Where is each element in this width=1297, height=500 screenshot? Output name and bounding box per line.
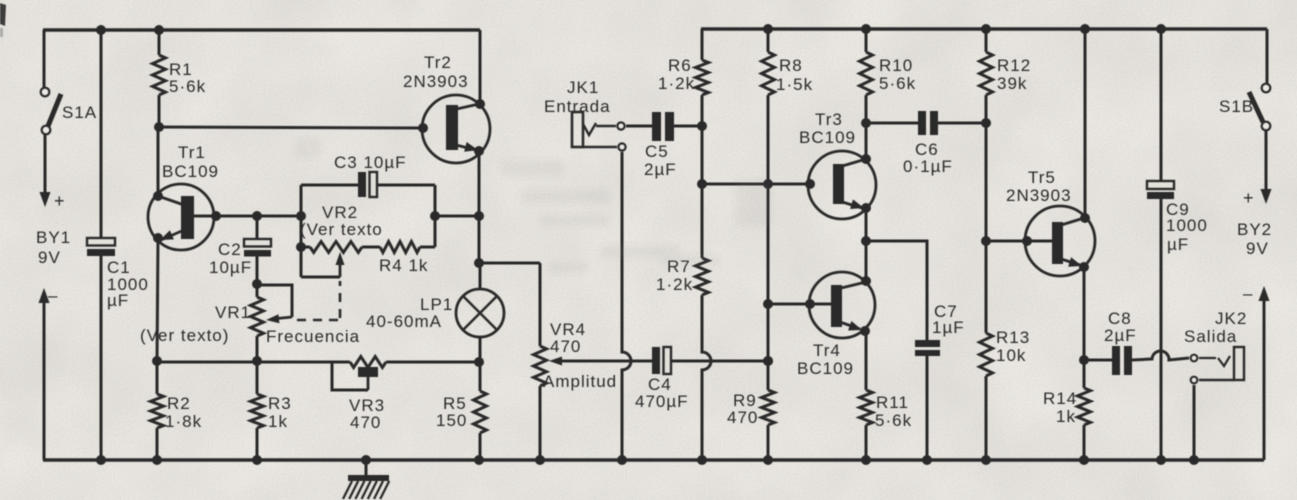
junction ground rail xyxy=(361,455,371,465)
wire R12 to Tr5 base node xyxy=(985,123,988,241)
svg-text:+: + xyxy=(1243,188,1254,208)
wire R2 bottom xyxy=(156,428,159,460)
wire VR2 loop right vertical xyxy=(434,185,437,247)
junction Tr4 base node xyxy=(763,299,773,309)
junction VR2 loop left xyxy=(296,211,306,221)
battery BY1 negative arrow xyxy=(39,288,50,460)
svg-text:1·2k: 1·2k xyxy=(656,275,693,294)
junction Tr2 base xyxy=(418,123,428,133)
potentiometer VR3 wiper xyxy=(332,362,378,390)
wire C1 bottom xyxy=(100,256,103,460)
resistor R4 xyxy=(380,242,420,253)
svg-text:JK1: JK1 xyxy=(567,78,599,97)
svg-text:R2: R2 xyxy=(167,394,191,413)
transistor Tr3 xyxy=(808,151,876,219)
svg-text:150: 150 xyxy=(436,411,467,430)
wire R13 top xyxy=(985,241,988,333)
wire Tr2 collector xyxy=(479,30,482,104)
battery BY2 positive arrow xyxy=(1261,131,1272,204)
junction C9 top rail xyxy=(1156,24,1166,34)
capacitor C1 xyxy=(87,238,115,256)
wire JK1 tip to C5 xyxy=(626,125,652,128)
wire top rail left section xyxy=(43,28,480,32)
wire R14 bottom xyxy=(1083,425,1086,460)
wire VR2 loop to Tr2 emitter line xyxy=(435,215,479,218)
svg-text:470: 470 xyxy=(550,337,581,356)
svg-text:BC109: BC109 xyxy=(162,162,219,181)
resistor R6 xyxy=(696,60,709,95)
transistor Tr2 xyxy=(422,95,490,163)
wire VR1 bottom xyxy=(256,336,259,361)
capacitor C7 xyxy=(915,340,940,356)
junction R9 C4 node covered xyxy=(763,356,773,366)
svg-text:1k: 1k xyxy=(268,412,288,431)
svg-text:R14: R14 xyxy=(1043,389,1077,408)
junction VR2 loop right xyxy=(430,211,440,221)
wire R9 bottom xyxy=(767,425,770,460)
junction Tr5 emitter xyxy=(1079,262,1089,272)
junction JK1 sleeve rail xyxy=(617,455,627,465)
svg-text:VR1: VR1 xyxy=(215,303,251,322)
wire C8 to JK2 with hop xyxy=(1132,351,1189,360)
scan artifact edge blob xyxy=(0,3,6,37)
junction R3 bottom rail xyxy=(252,455,262,465)
resistor R7 xyxy=(696,258,709,295)
junction Tr2 emitter loop node xyxy=(474,211,484,221)
resistor R12 xyxy=(980,52,993,95)
junction C8 tap xyxy=(1079,355,1089,365)
wire Tr4 base xyxy=(768,303,832,306)
wire C9 top xyxy=(1160,29,1163,182)
svg-text:R12: R12 xyxy=(997,56,1031,75)
junction R11 bottom rail xyxy=(861,455,871,465)
ground xyxy=(343,460,389,499)
junction Tr5 collector rail xyxy=(1080,24,1090,34)
svg-text:Frecuencia: Frecuencia xyxy=(266,327,360,346)
svg-text:+: + xyxy=(54,191,65,211)
wire R5 bottom xyxy=(479,433,482,460)
svg-text:1000: 1000 xyxy=(1166,216,1208,235)
svg-text:–: – xyxy=(48,286,58,305)
svg-text:470µF: 470µF xyxy=(635,392,689,411)
junction R8 base node xyxy=(763,179,773,189)
lamp LP1 xyxy=(456,289,504,337)
wire VR2 to R4 xyxy=(362,246,380,249)
potentiometer VR1 xyxy=(251,297,264,336)
wire JK2 sleeve down xyxy=(1193,385,1196,460)
junction R10 C6 node xyxy=(861,118,871,128)
svg-text:C3 10µF: C3 10µF xyxy=(334,153,407,172)
dashed gang link VR1 to VR2 xyxy=(297,281,340,320)
resistor R5 xyxy=(474,391,487,433)
junction C7 tap xyxy=(861,236,871,246)
svg-text:5·6k: 5·6k xyxy=(169,77,206,96)
svg-text:39k: 39k xyxy=(997,74,1027,93)
wire R9 top xyxy=(767,304,770,390)
junction R7 bottom rail xyxy=(697,455,707,465)
svg-text:Tr2: Tr2 xyxy=(424,53,452,72)
svg-text:BY2: BY2 xyxy=(1237,220,1272,239)
wire VR4 top xyxy=(539,263,542,346)
wire R8 top xyxy=(767,29,770,52)
wire C1 top xyxy=(100,30,103,238)
junction C1 top rail xyxy=(96,25,106,35)
svg-text:–: – xyxy=(1243,284,1253,303)
wire R12 bottom xyxy=(985,95,988,123)
junction Tr1 base node xyxy=(211,211,221,221)
wire Tr2 emitter to VR4 xyxy=(479,262,540,265)
junction Tr4 base circle xyxy=(805,299,815,309)
scan artifact ghost print-through xyxy=(295,138,771,273)
resistor R10 xyxy=(860,52,873,95)
svg-text:2N3903: 2N3903 xyxy=(1006,186,1072,205)
svg-text:R13: R13 xyxy=(996,328,1030,347)
svg-text:R6: R6 xyxy=(668,56,692,75)
wire VR2 loop left vertical xyxy=(300,185,303,277)
wire R13 bottom xyxy=(985,376,988,460)
svg-text:C2: C2 xyxy=(218,240,242,259)
junction C4 R9 node xyxy=(763,356,773,366)
svg-text:10µF: 10µF xyxy=(209,258,252,277)
svg-text:Tr1: Tr1 xyxy=(178,143,206,162)
wire R1 top xyxy=(158,30,161,55)
junction Tr2 collector xyxy=(475,99,485,109)
junction R12 top rail xyxy=(981,24,991,34)
resistor R1 xyxy=(153,55,166,95)
svg-text:(Ver texto: (Ver texto xyxy=(300,220,383,239)
wire S1B top xyxy=(1266,29,1269,84)
wire Tr3 collector up xyxy=(865,123,868,159)
svg-text:R8: R8 xyxy=(779,56,803,75)
junction VR2 zigzag left xyxy=(296,242,306,252)
junction LP1 top node xyxy=(474,258,484,268)
svg-text:Tr3: Tr3 xyxy=(815,110,843,129)
wire C5 to R6 xyxy=(674,125,702,128)
wire Tr3 emitter down xyxy=(865,208,868,281)
junction R5 bottom rail xyxy=(474,455,484,465)
wire Tr2 emitter down xyxy=(478,151,481,263)
resistor R9 xyxy=(762,390,775,425)
svg-text:R11: R11 xyxy=(876,393,909,412)
wire C8 left xyxy=(1084,359,1112,362)
junction R10 top rail xyxy=(861,24,871,34)
junction R3 top xyxy=(252,356,262,366)
wire emitter bus right xyxy=(386,361,480,364)
potentiometer VR4 wiper arrow xyxy=(549,357,652,366)
wire Tr3 base xyxy=(702,183,810,186)
wire C7 bottom xyxy=(926,356,929,460)
svg-text:9V: 9V xyxy=(38,248,61,267)
junction Tr1 emitter xyxy=(153,233,163,243)
wire R2 top xyxy=(156,361,159,394)
wire R4 right stub xyxy=(420,246,435,249)
wire R3 top xyxy=(256,361,259,394)
svg-text:0·1µF: 0·1µF xyxy=(903,157,953,176)
wire C9 bottom xyxy=(1160,199,1163,460)
junction Tr1 collector xyxy=(153,191,163,201)
svg-text:µF: µF xyxy=(107,291,129,310)
svg-text:2µF: 2µF xyxy=(644,160,677,179)
switch S1B xyxy=(1249,84,1270,130)
capacitor C4 xyxy=(652,347,671,374)
wire R6 bottom xyxy=(701,95,704,126)
capacitor C8 xyxy=(1112,346,1132,375)
svg-text:(Ver texto): (Ver texto) xyxy=(140,326,229,345)
wire C2 bottom xyxy=(256,256,259,284)
svg-text:470: 470 xyxy=(727,408,758,427)
potentiometer VR1 wiper xyxy=(257,285,292,323)
junction C6 R12 node xyxy=(981,118,991,128)
resistor R14 xyxy=(1078,388,1091,425)
resistor R2 xyxy=(151,394,164,428)
wire Tr1 emitter down xyxy=(157,238,158,361)
jack JK1 xyxy=(572,112,626,151)
junction Tr3 base xyxy=(805,179,815,189)
capacitor C5 xyxy=(652,112,674,141)
wire R6 top xyxy=(701,29,704,60)
wire VR2 left stub xyxy=(301,246,310,249)
wire VR4 bottom xyxy=(539,386,542,460)
capacitor C6 xyxy=(918,111,938,135)
junction Tr3 base tap xyxy=(697,179,707,189)
capacitor C2 xyxy=(244,239,271,257)
wire VR1 top xyxy=(256,284,259,297)
wire R7 bottom with hop xyxy=(702,295,711,460)
wire LP1 top xyxy=(479,263,482,290)
wire R7 top xyxy=(701,184,704,258)
junction R6 C5 node xyxy=(697,121,707,131)
svg-text:µF: µF xyxy=(1167,235,1189,254)
transistor Tr5 xyxy=(1025,206,1095,276)
svg-text:5·6k: 5·6k xyxy=(879,74,916,93)
wire C6 left xyxy=(866,122,918,125)
svg-text:R4 1k: R4 1k xyxy=(379,256,428,275)
junction R1 top rail xyxy=(154,25,164,35)
junction Tr5 collector xyxy=(1080,213,1090,223)
junction Tr5 base node xyxy=(981,236,991,246)
wire R8 node to Tr4 base node xyxy=(767,184,770,304)
junction LP1 bottom node xyxy=(474,357,484,367)
svg-text:Amplitud: Amplitud xyxy=(543,372,617,391)
svg-text:JK2: JK2 xyxy=(1215,309,1247,328)
jack JK2 xyxy=(1191,347,1244,383)
wire R5 top xyxy=(479,362,482,391)
junction Tr4 emitter xyxy=(860,326,870,336)
svg-text:S1B: S1B xyxy=(1219,97,1254,116)
junction R1 bottom xyxy=(154,122,164,132)
wire R1 bottom xyxy=(158,95,161,128)
wire R8 bottom xyxy=(767,95,770,184)
svg-text:1µF: 1µF xyxy=(932,318,965,337)
junction R2 top xyxy=(152,356,162,366)
wire Tr5 collector up xyxy=(1084,29,1087,218)
junction R9 bottom rail xyxy=(763,455,773,465)
junction Tr4 collector xyxy=(861,276,871,286)
svg-text:C5: C5 xyxy=(645,142,669,161)
svg-text:S1A: S1A xyxy=(62,103,97,122)
svg-text:Tr4: Tr4 xyxy=(813,341,841,360)
svg-text:R3: R3 xyxy=(268,394,292,413)
junction C7 bottom rail xyxy=(922,455,932,465)
wire R11 bottom xyxy=(865,425,868,460)
wire JK1 sleeve down with hop xyxy=(622,152,631,460)
wire emitter bus left xyxy=(157,361,350,364)
junction VR4 bottom rail xyxy=(535,455,545,465)
wire C6 right xyxy=(938,122,986,125)
junction Tr2 emitter xyxy=(474,146,484,156)
wire R3 bottom xyxy=(256,428,259,460)
svg-text:470: 470 xyxy=(350,413,381,432)
wire C7 top xyxy=(866,241,927,341)
junction Tr3 collector xyxy=(861,154,871,164)
junction R14 bottom rail xyxy=(1079,455,1089,465)
svg-text:5·6k: 5·6k xyxy=(875,411,912,430)
wire LP1 bottom xyxy=(479,337,482,361)
potentiometer VR3 xyxy=(350,357,386,368)
svg-text:BC109: BC109 xyxy=(799,128,856,147)
transistor Tr1 xyxy=(148,184,214,250)
svg-text:10k: 10k xyxy=(996,346,1026,365)
battery BY1 positive arrow xyxy=(40,134,51,207)
svg-text:Salida: Salida xyxy=(1184,327,1237,346)
svg-text:2N3903: 2N3903 xyxy=(403,72,469,91)
wire bottom rail xyxy=(43,458,1264,462)
junction Tr5 base circle xyxy=(1022,236,1032,246)
wire VR2 loop top right xyxy=(377,184,435,187)
resistor R11 xyxy=(860,390,873,425)
switch S1A xyxy=(41,30,61,134)
wire R1 node to Tr2 base xyxy=(159,127,423,128)
svg-text:BC109: BC109 xyxy=(797,359,854,378)
junction R8 top rail xyxy=(763,24,773,34)
wire top rail right section xyxy=(701,27,1267,31)
junction R13 bottom rail xyxy=(981,455,991,465)
junction R2 bottom rail xyxy=(152,455,162,465)
junction VR1 top xyxy=(252,279,262,289)
wire R6 node down xyxy=(701,126,704,184)
svg-text:9V: 9V xyxy=(1246,239,1269,258)
wire Tr1 base xyxy=(194,215,301,218)
wire R10 top xyxy=(865,29,868,52)
capacitor C3 xyxy=(358,172,377,197)
resistor R3 xyxy=(251,394,264,428)
potentiometer VR2 wiper xyxy=(301,252,345,277)
junction JK2 sleeve rail xyxy=(1189,455,1199,465)
wire C2 top xyxy=(256,216,259,240)
svg-text:1·5k: 1·5k xyxy=(776,75,813,94)
svg-text:BY1: BY1 xyxy=(36,228,71,247)
svg-text:1·8k: 1·8k xyxy=(165,412,202,431)
wire R12 top xyxy=(985,29,988,52)
resistor R8 xyxy=(762,52,775,95)
svg-text:1·2k: 1·2k xyxy=(658,74,695,93)
junction C2 top xyxy=(252,211,262,221)
wire Tr4 emitter down xyxy=(865,331,868,390)
resistor R13 xyxy=(980,333,993,376)
transistor Tr4 xyxy=(809,272,875,338)
junction C1 bottom rail xyxy=(96,455,106,465)
potentiometer VR4 xyxy=(534,346,547,386)
wire Tr5 base xyxy=(986,240,1053,243)
junction Tr3 emitter xyxy=(861,203,871,213)
wire Tr5 emitter down xyxy=(1083,267,1086,360)
svg-text:40-60mA: 40-60mA xyxy=(366,312,442,331)
battery BY2 negative arrow xyxy=(1259,286,1270,460)
svg-text:R10: R10 xyxy=(879,56,913,75)
wire R14 top xyxy=(1083,360,1086,388)
potentiometer VR2 xyxy=(310,242,362,253)
svg-text:1k: 1k xyxy=(1056,407,1076,426)
wire Tr1 collector xyxy=(157,128,160,196)
svg-text:2µF: 2µF xyxy=(1104,326,1137,345)
wire R10 bottom xyxy=(865,95,868,123)
svg-text:Tr5: Tr5 xyxy=(1028,168,1056,187)
junction C9 bottom rail xyxy=(1156,455,1166,465)
capacitor C9 xyxy=(1147,181,1174,199)
wire C4 to bias node xyxy=(671,360,768,363)
wire VR2 loop top left xyxy=(301,184,358,187)
